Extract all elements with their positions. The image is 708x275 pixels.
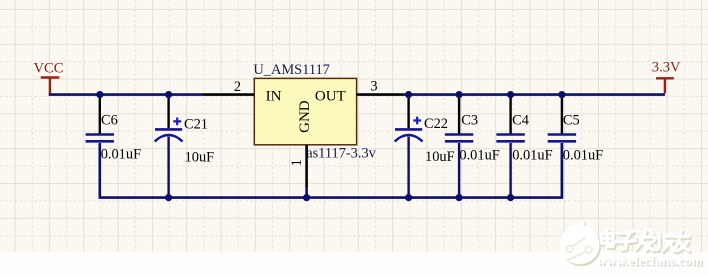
wire: regulator OUT to 3.3V rail: [404, 93, 665, 96]
capacitor C22 (polarized): [395, 96, 455, 197]
pin 2 (IN): [203, 79, 255, 95]
char you: [674, 231, 689, 251]
svg-text:10uF: 10uF: [185, 150, 215, 166]
svg-text:as1117-3.3v: as1117-3.3v: [306, 145, 376, 161]
svg-text:3.3V: 3.3V: [652, 59, 681, 75]
svg-text:10uF: 10uF: [425, 149, 455, 165]
svg-text:3: 3: [370, 79, 377, 95]
svg-text:C4: C4: [512, 112, 529, 128]
wire: ground return rail (bottom): [100, 143, 562, 198]
svg-text:1: 1: [289, 159, 305, 166]
svg-text:0.01uF: 0.01uF: [101, 146, 141, 162]
svg-text:0.01uF: 0.01uF: [512, 147, 552, 163]
power port VCC: [34, 61, 64, 94]
char shao: [656, 234, 676, 252]
char zi: [618, 233, 637, 251]
svg-text:C3: C3: [461, 112, 478, 128]
char fa: [637, 231, 654, 252]
svg-text:IN: IN: [266, 88, 282, 104]
capacitor C21 (polarized): [155, 96, 214, 197]
watermark chinese text: [602, 229, 689, 251]
char fa: [636, 230, 653, 251]
junction dots bottom rail: [165, 194, 514, 201]
svg-text:C21: C21: [184, 117, 208, 133]
watermark chinese text shadow: [603, 231, 690, 253]
char you: [675, 233, 690, 253]
junction dots top rail: [96, 91, 565, 98]
pin 1 (GND): [289, 145, 307, 187]
svg-text:C6: C6: [101, 113, 118, 129]
capacitor C4: [496, 96, 552, 197]
svg-text:GND: GND: [297, 100, 313, 133]
svg-text:2: 2: [234, 79, 241, 95]
wire: GND pin to bottom rail: [305, 187, 308, 197]
svg-text:C22: C22: [424, 116, 448, 132]
svg-text:0.01uF: 0.01uF: [459, 147, 499, 163]
svg-text:C5: C5: [563, 113, 580, 129]
regulator U_AMS1117 with pin labels IN/OUT/GND and value as1117-3.3v: [253, 62, 376, 161]
watermark url text: [597, 253, 704, 269]
capacitor C6: [86, 96, 141, 197]
wire: VCC rail to regulator IN: [49, 93, 203, 96]
svg-text:www.elecfans.com: www.elecfans.com: [597, 253, 703, 268]
svg-text:VCC: VCC: [34, 61, 64, 77]
svg-text:U_AMS1117: U_AMS1117: [253, 62, 330, 78]
capacitor C5: [548, 96, 603, 197]
capacitor C3: [445, 96, 500, 197]
char zi: [617, 232, 636, 250]
char shao: [654, 233, 674, 251]
pin 3 (OUT): [357, 79, 404, 95]
char dian: [602, 229, 614, 246]
watermark logo elecfans: [560, 220, 601, 266]
char dian: [603, 231, 615, 248]
svg-text:OUT: OUT: [315, 88, 346, 104]
power port 3.3V: [652, 59, 681, 93]
svg-text:0.01uF: 0.01uF: [563, 147, 603, 163]
